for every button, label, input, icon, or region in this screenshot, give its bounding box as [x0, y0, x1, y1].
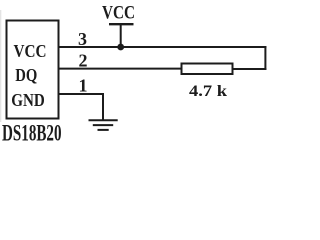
- svg-text:DQ: DQ: [15, 65, 37, 85]
- wire pin1 GND horizontal: [58, 93, 104, 95]
- svg-text:VCC: VCC: [102, 4, 135, 24]
- svg-text:DS18B20: DS18B20: [2, 121, 62, 147]
- svg-text:4.7 k: 4.7 k: [189, 83, 227, 100]
- wire pin1 GND vertical drop: [102, 93, 104, 120]
- svg-text:1: 1: [79, 76, 88, 96]
- DS18B20 IC body U1: [7, 21, 59, 119]
- wire pin3 to VCC net (horizontal): [58, 46, 266, 48]
- ground symbol bar 3: [98, 129, 109, 131]
- svg-text:VCC: VCC: [14, 41, 47, 61]
- svg-text:GND: GND: [11, 90, 45, 110]
- wire pin2 DQ to resistor left lead: [58, 68, 182, 70]
- wire resistor right lead to VCC drop: [233, 68, 266, 70]
- junction dot VCC net: [117, 44, 124, 51]
- scan edge artifact: [0, 10, 2, 122]
- VCC power symbol stem: [120, 24, 122, 47]
- ground symbol bar 1: [89, 119, 118, 121]
- ground symbol bar 2: [93, 124, 113, 126]
- VCC power symbol T-bar: [109, 23, 134, 25]
- wire VCC net right vertical drop: [264, 46, 266, 70]
- svg-text:3: 3: [78, 29, 87, 49]
- resistor R1 body: [182, 64, 233, 75]
